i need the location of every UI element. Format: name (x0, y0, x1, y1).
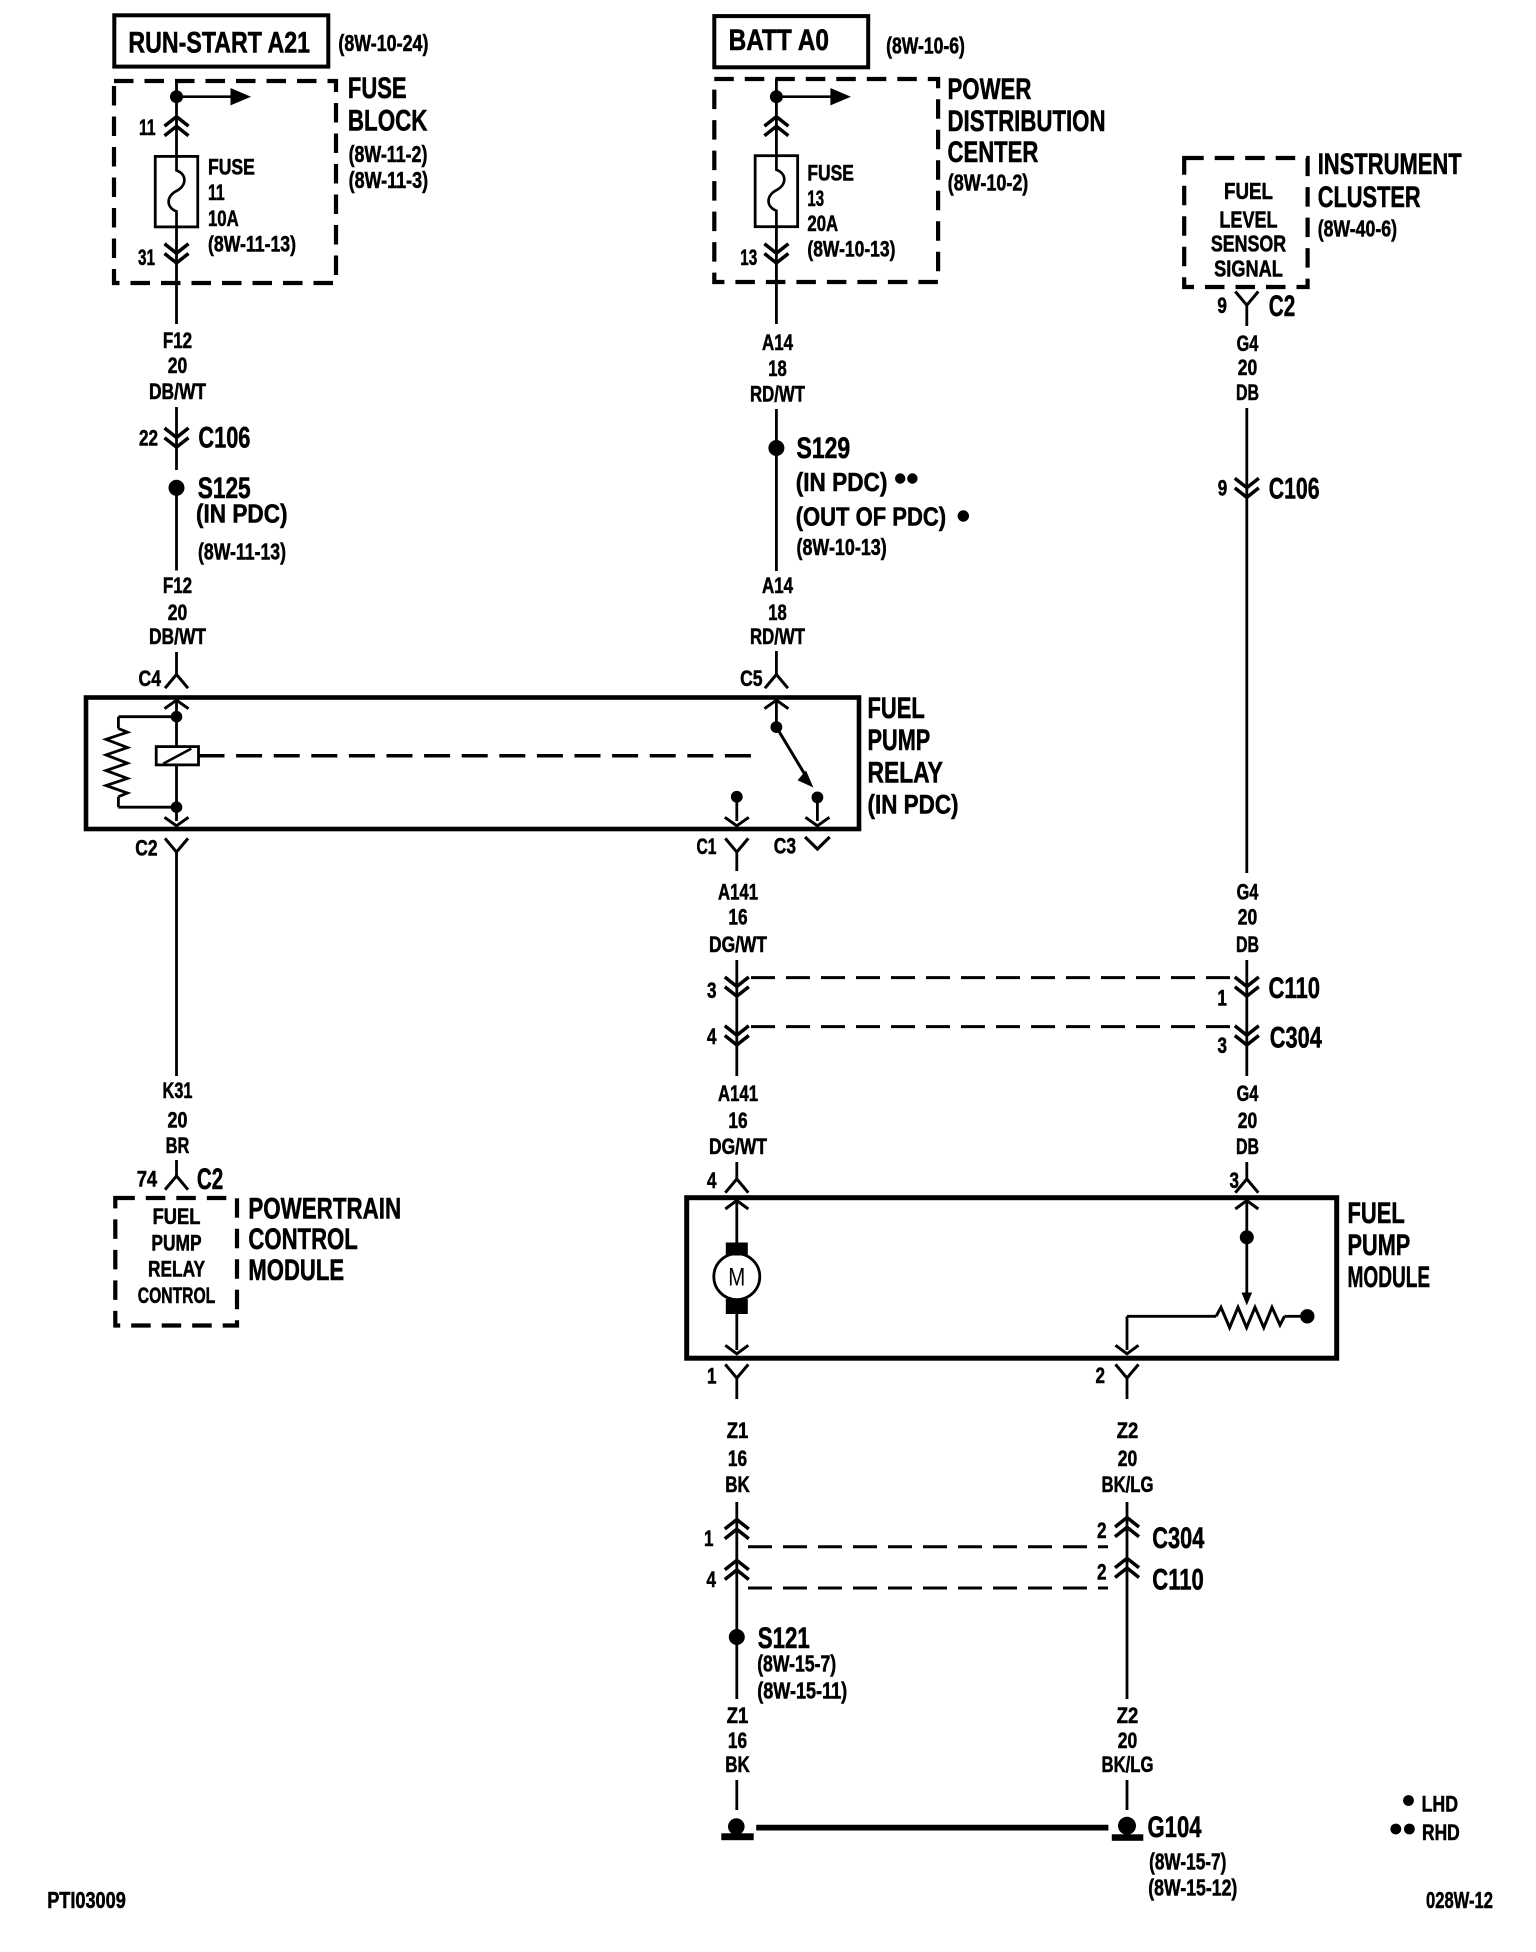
svg-text:(8W-15-7): (8W-15-7) (757, 1651, 836, 1677)
svg-text:A141: A141 (718, 1081, 758, 1106)
svg-text:1: 1 (704, 1526, 714, 1551)
svg-text:1: 1 (1217, 985, 1227, 1010)
pin 4 (707, 1168, 717, 1193)
wire (735, 960, 738, 1076)
relay coil node dot top (171, 711, 183, 723)
node RUN-START A21 feed box (114, 15, 328, 66)
svg-text:LHD: LHD (1422, 1792, 1458, 1817)
svg-text:DB: DB (1236, 932, 1259, 957)
fuse block F11 dashed outline (114, 81, 336, 283)
label C2 (197, 1163, 223, 1196)
splice S125 dot (169, 480, 185, 496)
label (8W-15-12) (1148, 1875, 1237, 1901)
connector pin 3 into module (1235, 1162, 1258, 1193)
wire (117, 717, 120, 729)
svg-text:CONTROL: CONTROL (248, 1223, 357, 1256)
module pin 2 exit arrow (1116, 1345, 1139, 1354)
svg-text:Z2: Z2 (1117, 1418, 1139, 1443)
wire (1126, 1316, 1129, 1350)
svg-text:PUMP: PUMP (1348, 1229, 1411, 1262)
svg-text:(IN PDC): (IN PDC) (868, 790, 959, 820)
svg-text:Z2: Z2 (1117, 1703, 1139, 1728)
svg-text:18: 18 (768, 600, 787, 625)
svg-text:20A: 20A (807, 211, 838, 236)
svg-text:LEVEL: LEVEL (1219, 207, 1277, 233)
wire (775, 409, 778, 442)
pin C3 (774, 834, 796, 859)
svg-text:RD/WT: RD/WT (750, 624, 805, 649)
label PTI03009 (47, 1887, 126, 1913)
relay resistor zigzag (106, 729, 128, 797)
svg-text:BK/LG: BK/LG (1102, 1472, 1154, 1497)
relay coil node dot bottom (171, 801, 183, 813)
wire (735, 1780, 738, 1810)
label C304 (1270, 1022, 1322, 1055)
motor M1 fuel pump (714, 1243, 760, 1314)
label (OUT OF PDC) . (796, 502, 969, 532)
label (8W-15-11) (757, 1678, 847, 1704)
pin 1 (1217, 985, 1227, 1010)
svg-text:CONTROL: CONTROL (138, 1283, 216, 1308)
relay pin C2 exit arrow (165, 817, 189, 826)
connector C2 below cluster (1235, 292, 1258, 327)
svg-text:Z1: Z1 (727, 1703, 749, 1728)
relay pin C5 entry arrow (764, 700, 788, 709)
pin C1 (697, 834, 717, 859)
svg-text:C5: C5 (740, 666, 763, 691)
svg-text:2: 2 (1096, 1363, 1106, 1388)
connector C110 chevrons left (725, 977, 749, 996)
svg-text:31: 31 (138, 245, 155, 270)
pin C2 (135, 835, 157, 860)
wire (775, 700, 778, 722)
wire (1126, 1502, 1129, 1699)
wire label Z1 16 BK (725, 1418, 750, 1497)
wire (175, 700, 178, 712)
svg-text:POWERTRAIN: POWERTRAIN (248, 1193, 401, 1226)
svg-text:20: 20 (1118, 1728, 1138, 1753)
svg-text:RD/WT: RD/WT (750, 382, 805, 407)
instrument cluster fuel level sensor dashed box (1184, 158, 1307, 287)
pin 2 (1097, 1560, 1107, 1585)
wire (175, 765, 178, 807)
svg-text:16: 16 (728, 905, 747, 930)
svg-text:M: M (728, 1264, 745, 1292)
wire label A141 16 DG/WT (709, 879, 767, 957)
wire link C304 dashed (748, 1545, 1108, 1548)
connector pin 4 into module (725, 1162, 748, 1193)
svg-text:(8W-15-12): (8W-15-12) (1148, 1875, 1237, 1901)
label 028W-12 (1426, 1887, 1493, 1913)
pin 3 (707, 978, 717, 1003)
fuse F13 symbol (755, 156, 798, 227)
connector C304 chevrons bottom right (1115, 1518, 1139, 1537)
svg-text:DISTRIBUTION: DISTRIBUTION (948, 105, 1106, 138)
relay pin C4 entry arrow (165, 700, 189, 709)
svg-text:A141: A141 (718, 879, 758, 904)
label FUSE 11 10A (208, 155, 296, 257)
wire (118, 806, 176, 809)
svg-text:DG/WT: DG/WT (709, 1134, 767, 1159)
pin 2 (1097, 1518, 1107, 1543)
wire (816, 797, 819, 821)
label S121 (758, 1622, 810, 1655)
svg-text:16: 16 (728, 1446, 747, 1471)
fuel pump module box (687, 1198, 1337, 1359)
pin 31 (138, 245, 155, 270)
legend RHD (1390, 1820, 1459, 1845)
label C106 (198, 422, 250, 455)
wire label G4 20 DB (1236, 331, 1259, 405)
connector chevrons (764, 117, 788, 136)
svg-text:13: 13 (740, 245, 757, 270)
svg-text:74: 74 (137, 1167, 158, 1192)
label (8W-11-13) (198, 539, 286, 565)
svg-text:4: 4 (707, 1024, 717, 1049)
arrow feed to other circuits (782, 88, 851, 105)
wire (735, 1644, 738, 1699)
pin 1 (707, 1363, 717, 1388)
label (8W-10-13) (797, 534, 887, 560)
svg-text:C304: C304 (1270, 1022, 1322, 1055)
svg-text:G104: G104 (1148, 1811, 1202, 1844)
svg-text:16: 16 (728, 1728, 747, 1753)
wire (775, 79, 778, 92)
svg-text:PUMP: PUMP (868, 724, 931, 757)
svg-text:20: 20 (1238, 355, 1258, 380)
svg-text:(8W-15-11): (8W-15-11) (757, 1678, 847, 1704)
connector chevrons pin 31 (165, 244, 189, 263)
wire label Z1 16 BK (725, 1703, 750, 1777)
pin 1 (704, 1526, 714, 1551)
svg-text:BATT A0: BATT A0 (729, 24, 829, 57)
svg-text:BK: BK (725, 1472, 750, 1497)
svg-text:C106: C106 (198, 422, 250, 455)
fuel level sender resistor (1216, 1307, 1284, 1327)
connector chevrons pin 13 (764, 244, 788, 263)
svg-text:FUSE: FUSE (348, 72, 407, 105)
svg-text:(IN PDC): (IN PDC) (196, 499, 288, 529)
wire (735, 1314, 738, 1351)
connector C2 below relay (165, 838, 188, 1076)
svg-text:3: 3 (1218, 1033, 1228, 1058)
junction dot (770, 90, 783, 103)
pin C5 (740, 666, 763, 691)
label INSTRUMENT CLUSTER heading (1318, 148, 1462, 241)
svg-text:18: 18 (768, 356, 787, 381)
svg-text:(8W-11-2): (8W-11-2) (349, 141, 428, 167)
relay switch blade (776, 727, 813, 787)
wire (117, 797, 120, 808)
svg-text:20: 20 (168, 600, 188, 625)
svg-text:9: 9 (1217, 293, 1227, 318)
label C110 (1269, 972, 1321, 1005)
svg-text:(8W-10-6): (8W-10-6) (886, 33, 965, 59)
junction dot (170, 90, 183, 103)
label (8W-10-24) (338, 30, 428, 56)
svg-text:(OUT OF PDC): (OUT OF PDC) (796, 502, 946, 532)
PDC dashed outline (714, 79, 938, 282)
svg-text:C2: C2 (1269, 290, 1295, 323)
wire label Z2 20 BK/LG (1102, 1418, 1154, 1497)
wire (735, 797, 738, 821)
pin 11 (139, 115, 156, 140)
svg-text:Z1: Z1 (727, 1418, 749, 1443)
relay contact dot C1 (731, 791, 743, 803)
pin 74 (137, 1167, 158, 1192)
connector C110 chevrons right (1235, 977, 1259, 996)
connector C1 below relay (725, 838, 748, 871)
svg-text:MODULE: MODULE (248, 1254, 344, 1287)
svg-text:MODULE: MODULE (1348, 1261, 1431, 1294)
svg-text:(8W-11-3): (8W-11-3) (349, 167, 429, 193)
svg-text:11: 11 (208, 180, 225, 205)
wire (175, 407, 178, 447)
svg-text:C1: C1 (697, 834, 717, 859)
svg-text:(8W-10-13): (8W-10-13) (797, 534, 887, 560)
svg-text:RHD: RHD (1422, 1820, 1460, 1845)
sender terminal dot (1300, 1309, 1314, 1323)
label C2 (1269, 290, 1295, 323)
pin 9 (1217, 293, 1227, 318)
svg-text:G4: G4 (1237, 1081, 1259, 1106)
svg-text:20: 20 (1238, 1108, 1258, 1133)
svg-text:G4: G4 (1237, 879, 1259, 904)
svg-text:K31: K31 (163, 1078, 193, 1103)
svg-text:C2: C2 (197, 1163, 223, 1196)
relay coil symbol (156, 747, 198, 765)
connector C4 into relay (165, 652, 188, 688)
pin 13 (740, 245, 757, 270)
wire (1245, 1200, 1248, 1231)
svg-text:22: 22 (139, 425, 158, 450)
wire label A14 18 RD/WT (750, 573, 805, 649)
svg-text:DB: DB (1236, 1134, 1259, 1159)
connector pin 2 below module (1116, 1364, 1139, 1399)
connector C5 into relay (765, 651, 788, 688)
wire (775, 227, 778, 324)
label FUSE BLOCK heading (348, 72, 428, 193)
wire label A14 18 RD/WT (750, 330, 805, 407)
svg-text:S129: S129 (797, 432, 851, 465)
module pin 4 entry arrow (725, 1201, 748, 1210)
pin C4 (139, 666, 162, 691)
wire (735, 1502, 738, 1630)
label C110 (1152, 1564, 1204, 1597)
svg-text:FUSE: FUSE (807, 161, 854, 186)
pin 9 (1218, 475, 1228, 500)
svg-text:1: 1 (707, 1363, 717, 1388)
svg-text:FUEL: FUEL (868, 692, 925, 725)
wire (175, 717, 178, 747)
pin 4 (707, 1024, 717, 1049)
svg-text:C4: C4 (139, 666, 162, 691)
fuse F11 symbol (155, 156, 198, 227)
pin 22 (139, 425, 158, 450)
svg-text:20: 20 (168, 1108, 188, 1133)
wire label G4 20 DB (1236, 879, 1259, 957)
svg-text:BK: BK (725, 1752, 750, 1777)
svg-text:SIGNAL: SIGNAL (1214, 256, 1283, 282)
connector C3 terminator (805, 837, 830, 849)
label S129 (797, 432, 851, 465)
svg-text:BK/LG: BK/LG (1102, 1752, 1154, 1777)
label (8W-15-7) (757, 1651, 836, 1677)
label FUEL PUMP MODULE (1348, 1197, 1431, 1294)
wire label A141 16 DG/WT (709, 1081, 767, 1159)
svg-text:INSTRUMENT: INSTRUMENT (1318, 148, 1462, 181)
svg-text:FUSE: FUSE (208, 155, 255, 180)
PCM fuel pump relay control dashed box (115, 1198, 237, 1326)
ground G104 left symbol (722, 1818, 753, 1839)
wire label G4 20 DB (1236, 1081, 1259, 1159)
wire (175, 81, 178, 92)
svg-text:4: 4 (707, 1567, 717, 1592)
svg-text:BR: BR (166, 1133, 190, 1158)
svg-text:G4: G4 (1237, 331, 1259, 356)
label C304 (1152, 1522, 1204, 1555)
svg-text:2: 2 (1097, 1518, 1107, 1543)
wire (118, 715, 176, 718)
wire (175, 447, 178, 470)
legend LHD (1403, 1792, 1458, 1817)
arrow feed to other circuits (183, 88, 252, 105)
svg-text:C3: C3 (774, 834, 796, 859)
svg-text:SENSOR: SENSOR (1211, 231, 1287, 257)
svg-text:(8W-11-13): (8W-11-13) (208, 232, 296, 257)
wire (735, 1200, 738, 1243)
connector chevrons pin 11 (165, 117, 189, 136)
svg-text:C106: C106 (1269, 473, 1320, 506)
ground G104 right symbol (1112, 1817, 1143, 1841)
svg-text:CENTER: CENTER (948, 136, 1039, 169)
wire link C304 dashed (751, 1025, 1233, 1028)
relay switch contact dot C3 (812, 792, 824, 804)
label S125 (198, 472, 251, 505)
svg-text:FUEL: FUEL (1348, 1197, 1405, 1230)
relay box FUEL PUMP RELAY (86, 698, 859, 830)
wire label Z2 20 BK/LG (1102, 1703, 1154, 1777)
wire (775, 101, 778, 156)
label (IN PDC) (196, 499, 288, 529)
node BATT A0 feed box (714, 16, 868, 67)
connector C304 chevrons left (725, 1026, 749, 1045)
label FUEL LEVEL SENSOR SIGNAL (1211, 178, 1287, 282)
svg-text:A14: A14 (762, 573, 794, 598)
pin 4 (707, 1567, 717, 1592)
label POWERTRAIN CONTROL MODULE (248, 1193, 401, 1288)
svg-text:F12: F12 (163, 573, 192, 598)
wire label F12 20 DB/WT (149, 328, 207, 404)
pin 3 (1230, 1168, 1240, 1193)
svg-text:POWER: POWER (948, 73, 1032, 106)
relay actuation dashed link (199, 754, 763, 758)
svg-text:(8W-10-2): (8W-10-2) (948, 169, 1029, 195)
svg-text:F12: F12 (163, 328, 192, 353)
wire (775, 455, 778, 571)
svg-text:DB/WT: DB/WT (149, 379, 207, 404)
svg-text:C110: C110 (1269, 972, 1321, 1005)
svg-text:3: 3 (707, 978, 717, 1003)
svg-text:(8W-10-13): (8W-10-13) (807, 236, 895, 261)
wire link C110 dashed (751, 976, 1233, 979)
connector C2 into PCM (165, 1160, 188, 1190)
wire sender wiper arrow (1242, 1237, 1253, 1305)
relay pin C1 exit arrow (725, 817, 749, 826)
svg-text:20: 20 (1118, 1446, 1138, 1471)
svg-text:RELAY: RELAY (868, 756, 943, 789)
label POWER DISTRIBUTION CENTER heading (948, 73, 1106, 195)
wire (1126, 1780, 1129, 1810)
svg-text:C110: C110 (1152, 1564, 1204, 1597)
svg-text:4: 4 (707, 1168, 717, 1193)
label G104 (1148, 1811, 1202, 1844)
relay switch pivot dot (771, 721, 783, 733)
svg-text:FUEL: FUEL (153, 1204, 201, 1229)
pin 3 (1218, 1033, 1228, 1058)
svg-text:(8W-11-13): (8W-11-13) (198, 539, 286, 565)
svg-text:DB: DB (1236, 380, 1259, 405)
splice S121 dot (729, 1629, 745, 1645)
wire link C110 dashed (748, 1587, 1108, 1590)
wire (1245, 408, 1248, 873)
svg-text:(8W-40-6): (8W-40-6) (1318, 216, 1397, 242)
wire label F12 20 DB/WT (149, 573, 207, 649)
wire (175, 807, 178, 821)
sender junction dot (1240, 1230, 1254, 1244)
svg-text:CLUSTER: CLUSTER (1318, 181, 1421, 214)
svg-text:20: 20 (1238, 905, 1258, 930)
svg-text:C304: C304 (1152, 1522, 1204, 1555)
connector C106 chevrons (1235, 478, 1259, 497)
module pin 1 exit arrow (725, 1345, 748, 1354)
connector C110 chevrons bottom left (725, 1560, 749, 1579)
svg-text:RUN-START A21: RUN-START A21 (128, 27, 310, 60)
label (IN PDC) .. (796, 467, 918, 497)
svg-text:PTI03009: PTI03009 (47, 1887, 126, 1913)
svg-text:FUEL: FUEL (1224, 178, 1273, 204)
svg-text:2: 2 (1097, 1560, 1107, 1585)
svg-text:13: 13 (807, 186, 824, 211)
label FUEL PUMP RELAY CONTROL (138, 1204, 216, 1308)
relay pin C3 exit arrow (805, 817, 829, 826)
wire (1127, 1315, 1216, 1318)
label FUSE 13 20A (807, 161, 895, 262)
svg-text:A14: A14 (762, 330, 794, 355)
wire (1285, 1315, 1301, 1318)
svg-text:RELAY: RELAY (148, 1256, 205, 1281)
module pin 3 entry arrow (1235, 1201, 1258, 1210)
svg-text:028W-12: 028W-12 (1426, 1887, 1493, 1913)
wire ground bus (756, 1825, 1108, 1831)
label FUEL PUMP RELAY (IN PDC) (868, 692, 959, 820)
svg-text:11: 11 (139, 115, 156, 140)
svg-text:C2: C2 (135, 835, 157, 860)
svg-text:10A: 10A (208, 206, 239, 231)
svg-text:16: 16 (728, 1108, 747, 1133)
svg-text:DG/WT: DG/WT (709, 932, 767, 957)
connector pin 1 below module (725, 1364, 748, 1399)
svg-text:DB/WT: DB/WT (149, 624, 207, 649)
label (8W-15-7) (1149, 1849, 1226, 1875)
connector C304 chevrons right (1235, 1026, 1259, 1045)
wire (1245, 960, 1248, 1076)
connector C106 chevrons (165, 428, 189, 447)
pin 2 (1096, 1363, 1106, 1388)
svg-text:(8W-10-24): (8W-10-24) (338, 30, 428, 56)
label (8W-10-6) (886, 33, 965, 59)
svg-text:(8W-15-7): (8W-15-7) (1149, 1849, 1226, 1875)
